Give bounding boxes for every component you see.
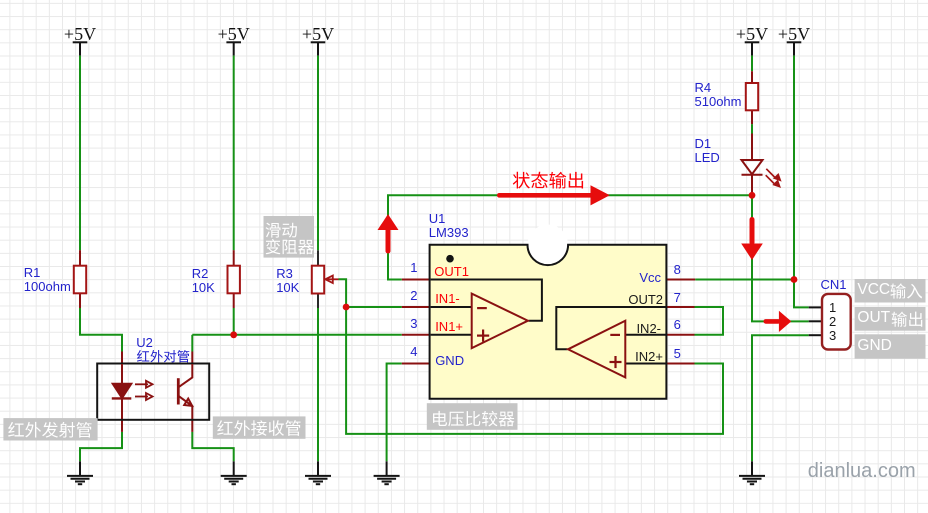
- label infrared receiver 红外接收管: [213, 416, 306, 438]
- U1 pin 5 stub: [666, 363, 694, 365]
- U1 pin 3 stub: [402, 334, 431, 336]
- optocoupler U2 box: [97, 364, 209, 420]
- junction node R3 wiper: [343, 304, 350, 311]
- watermark dianlua.com: [808, 459, 916, 483]
- U1 pin number 2: [398, 289, 418, 303]
- U1 internal OUT2 connection: [556, 307, 666, 349]
- pin stub R1 top: [79, 250, 81, 266]
- U2 phototransistor: [178, 364, 192, 406]
- wire LED junction to CN1 pin2: [752, 195, 809, 321]
- wire CN1 pin3 to ground: [752, 335, 809, 461]
- U2 designator: [136, 336, 153, 350]
- junction node Vcc / +5V: [791, 276, 798, 283]
- U1 pin 7 stub: [666, 306, 694, 308]
- +5V label 2: [204, 24, 264, 44]
- U1 pin number 7: [674, 291, 681, 305]
- U2 cathode stub: [121, 398, 123, 432]
- ground symbol 1: [67, 461, 93, 484]
- U1 pin name IN2+: [613, 350, 663, 364]
- +5V label 5: [764, 24, 824, 44]
- wire node to IN2+: [346, 307, 723, 434]
- red text status output 状态输出: [513, 172, 583, 189]
- label GND text: [857, 338, 891, 354]
- wire GND pin4 to ground: [387, 364, 402, 462]
- U2 infrared LED: [112, 364, 132, 398]
- R1 designator and value: [24, 266, 71, 294]
- wire U2 collector to IN1+: [192, 334, 401, 336]
- wire pin8 Vcc to junction: [695, 279, 794, 281]
- wire R3 wiper to node: [339, 279, 347, 307]
- ground symbol 4: [374, 461, 400, 484]
- wire OUT1 status output: [388, 195, 752, 279]
- CN1 pin number 2: [823, 315, 843, 329]
- label infrared emitter 红外发射管: [3, 418, 97, 440]
- pin stub R4 to LED: [751, 134, 753, 161]
- LED D1 symbol: [742, 160, 763, 175]
- junction node IN1+ / R2: [230, 331, 237, 338]
- +5V power symbol bar 5: [787, 42, 802, 55]
- label sliding rheostat 滑动变阻器: [264, 216, 315, 258]
- +5V label 1: [50, 24, 110, 44]
- U2 emitter stub: [191, 406, 193, 432]
- wire node to IN1-: [346, 306, 402, 308]
- potentiometer R3 wiper arrow: [325, 276, 338, 283]
- connector CN1 pin stubs: [809, 307, 823, 335]
- CN1 pin number 1: [823, 301, 843, 315]
- red annotation arrow right (status output): [497, 185, 610, 205]
- wire +5V to R3: [317, 56, 319, 251]
- label VCC text: [857, 282, 890, 298]
- U1 internal IN1+ line: [431, 334, 472, 336]
- U1 internal IN2+ line: [625, 363, 666, 365]
- U1 pin 4 stub: [402, 363, 431, 365]
- U1 pin name IN2-: [611, 322, 661, 336]
- U1 notch background blank: [528, 225, 569, 266]
- resistor R1 body: [74, 266, 86, 294]
- U1 pin 8 stub: [666, 279, 695, 281]
- label OUT output: [855, 307, 926, 331]
- pin stub R2 top: [233, 250, 235, 266]
- red annotation arrow up (OUT1): [378, 214, 399, 253]
- U1 pin name OUT1: [434, 265, 469, 279]
- U1 pin name IN1+: [435, 320, 463, 334]
- potentiometer R3 body: [312, 266, 324, 294]
- U1 pin number 5: [674, 347, 681, 361]
- pin stub R1 bottom: [79, 293, 81, 308]
- +5V power symbol bar 4: [745, 42, 760, 55]
- comparator B triangle: [568, 321, 625, 378]
- label VCC input: [855, 279, 926, 303]
- +5V label 4: [722, 24, 782, 44]
- U1 pin number 1: [398, 261, 418, 275]
- pin stub R4 top: [751, 71, 753, 83]
- ground symbol 5: [739, 461, 765, 484]
- U2 anode stub: [121, 352, 123, 365]
- +5V power symbol bar 2: [226, 42, 241, 55]
- wire +5V to R4: [751, 56, 753, 72]
- U1 pin number 4: [398, 345, 418, 359]
- U1 pin name OUT2: [613, 293, 663, 307]
- op-amp comparator U1 LM393 body: [430, 245, 667, 399]
- label voltage comparator 电压比较器: [427, 403, 518, 430]
- wire R3 to ground: [317, 308, 319, 461]
- CN1 designator: [821, 278, 847, 292]
- U1 pin 2 stub: [402, 306, 431, 308]
- label GND: [855, 334, 926, 358]
- wire U2 emitter to ground: [192, 432, 233, 461]
- U1 pin name GND: [435, 354, 464, 368]
- red annotation arrow right (OUT to CN1 pin2): [764, 311, 792, 332]
- U1 internal OUT1 connection: [431, 280, 542, 321]
- wire junction to CN1 pin1: [794, 280, 809, 308]
- LED D1 light arrows: [766, 169, 781, 187]
- D1 designator and value: [695, 137, 720, 165]
- R3 designator and value: [276, 267, 299, 295]
- wire R1 to U2 LED anode: [80, 308, 122, 352]
- connector CN1 body: [822, 294, 851, 350]
- wire +5V to Vcc junction: [793, 56, 795, 280]
- wire +5V to R1: [79, 56, 81, 251]
- wire OUT2 to IN2- loop: [695, 307, 724, 335]
- wire U2 cathode to ground: [80, 432, 122, 461]
- resistor R2 body: [228, 266, 240, 294]
- U1 pin 1 stub: [402, 279, 431, 281]
- red annotation arrow down (to CN1): [741, 217, 763, 260]
- pin stub R3 bottom: [317, 293, 319, 308]
- junction node status output / LED: [749, 192, 756, 199]
- U1 pin number 3: [398, 317, 418, 331]
- U2 collector stub: [191, 352, 193, 365]
- U1 pin number 8: [674, 263, 681, 277]
- U2 LED emission arrows: [135, 381, 153, 400]
- U1 pin 6 stub: [666, 334, 694, 336]
- wire +5V to R2: [233, 56, 235, 251]
- R2 designator and value: [192, 267, 215, 295]
- pin stub R3 top: [317, 250, 319, 266]
- U1 pin1 dot marker: [446, 255, 454, 263]
- U1 internal IN2- line: [625, 334, 666, 336]
- wire R4 to LED: [751, 124, 753, 133]
- wire collector stub up: [191, 335, 193, 352]
- ground symbol 2: [221, 461, 247, 484]
- CN1 pin number 3: [823, 329, 843, 343]
- U1 internal IN1- line: [431, 306, 472, 308]
- pin stub R4 bottom: [751, 110, 753, 124]
- pin stub R2 bottom: [233, 293, 235, 308]
- label OUT text: [857, 310, 890, 326]
- resistor R4 body: [746, 83, 758, 110]
- U1 designator and value: [429, 212, 469, 240]
- wire R2 to IN1+ node: [233, 308, 235, 335]
- ground symbol 3: [305, 461, 331, 484]
- +5V power symbol bar 1: [73, 42, 88, 55]
- U1 pin name Vcc: [611, 271, 661, 285]
- +5V label 3: [288, 24, 348, 44]
- +5V power symbol bar 3: [311, 42, 326, 55]
- U1 pin name IN1-: [435, 292, 460, 306]
- comparator A triangle: [472, 294, 528, 349]
- U2 subtitle 红外对管: [137, 350, 189, 362]
- R4 designator and value: [695, 81, 742, 109]
- pin stub LED cathode to junction: [751, 175, 753, 196]
- U1 pin number 6: [674, 318, 681, 332]
